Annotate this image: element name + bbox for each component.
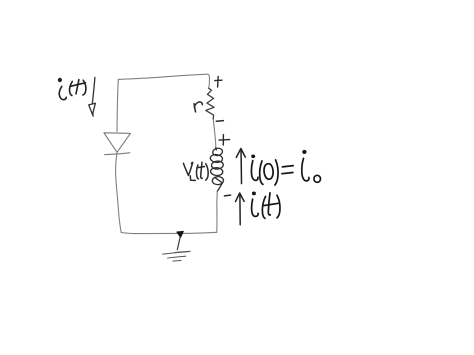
diode D (triangle)	[104, 133, 130, 153]
inductor L (scribbled coil)	[210, 148, 224, 192]
minus polarity (inductor bottom)	[224, 194, 230, 197]
ground bar 1	[163, 251, 191, 254]
label i(t) right	[252, 192, 280, 219]
ground junction node	[177, 231, 184, 237]
label i(t) top-left	[58, 78, 86, 100]
wire resistor bottom to inductor top	[213, 119, 216, 147]
plus polarity (resistor top)	[215, 76, 222, 87]
arrow i(0) (long, pointing up)	[236, 149, 245, 184]
label r	[194, 102, 202, 112]
diode cathode bar	[105, 153, 130, 155]
wire left lower (diode to bottom corner)	[116, 152, 122, 232]
wire bottom	[121, 232, 217, 233]
arrow i(t) (short, pointing up)	[236, 193, 245, 225]
wire inductor bottom to corner	[216, 191, 219, 232]
label VL(t)	[183, 162, 208, 180]
wire left upper (node A to diode)	[117, 79, 118, 131]
plus polarity (inductor top)	[219, 135, 230, 145]
ground bar 3	[173, 259, 181, 262]
minus polarity (resistor bottom)	[216, 120, 223, 123]
ground bar 2	[168, 256, 186, 258]
arrow for i(t) top-left (pointing down)	[89, 77, 96, 116]
label i(0) = i0	[251, 150, 320, 185]
resistor r (zigzag)	[206, 88, 214, 119]
ground lead	[177, 237, 180, 250]
wire top (node A to resistor top)	[118, 74, 209, 88]
